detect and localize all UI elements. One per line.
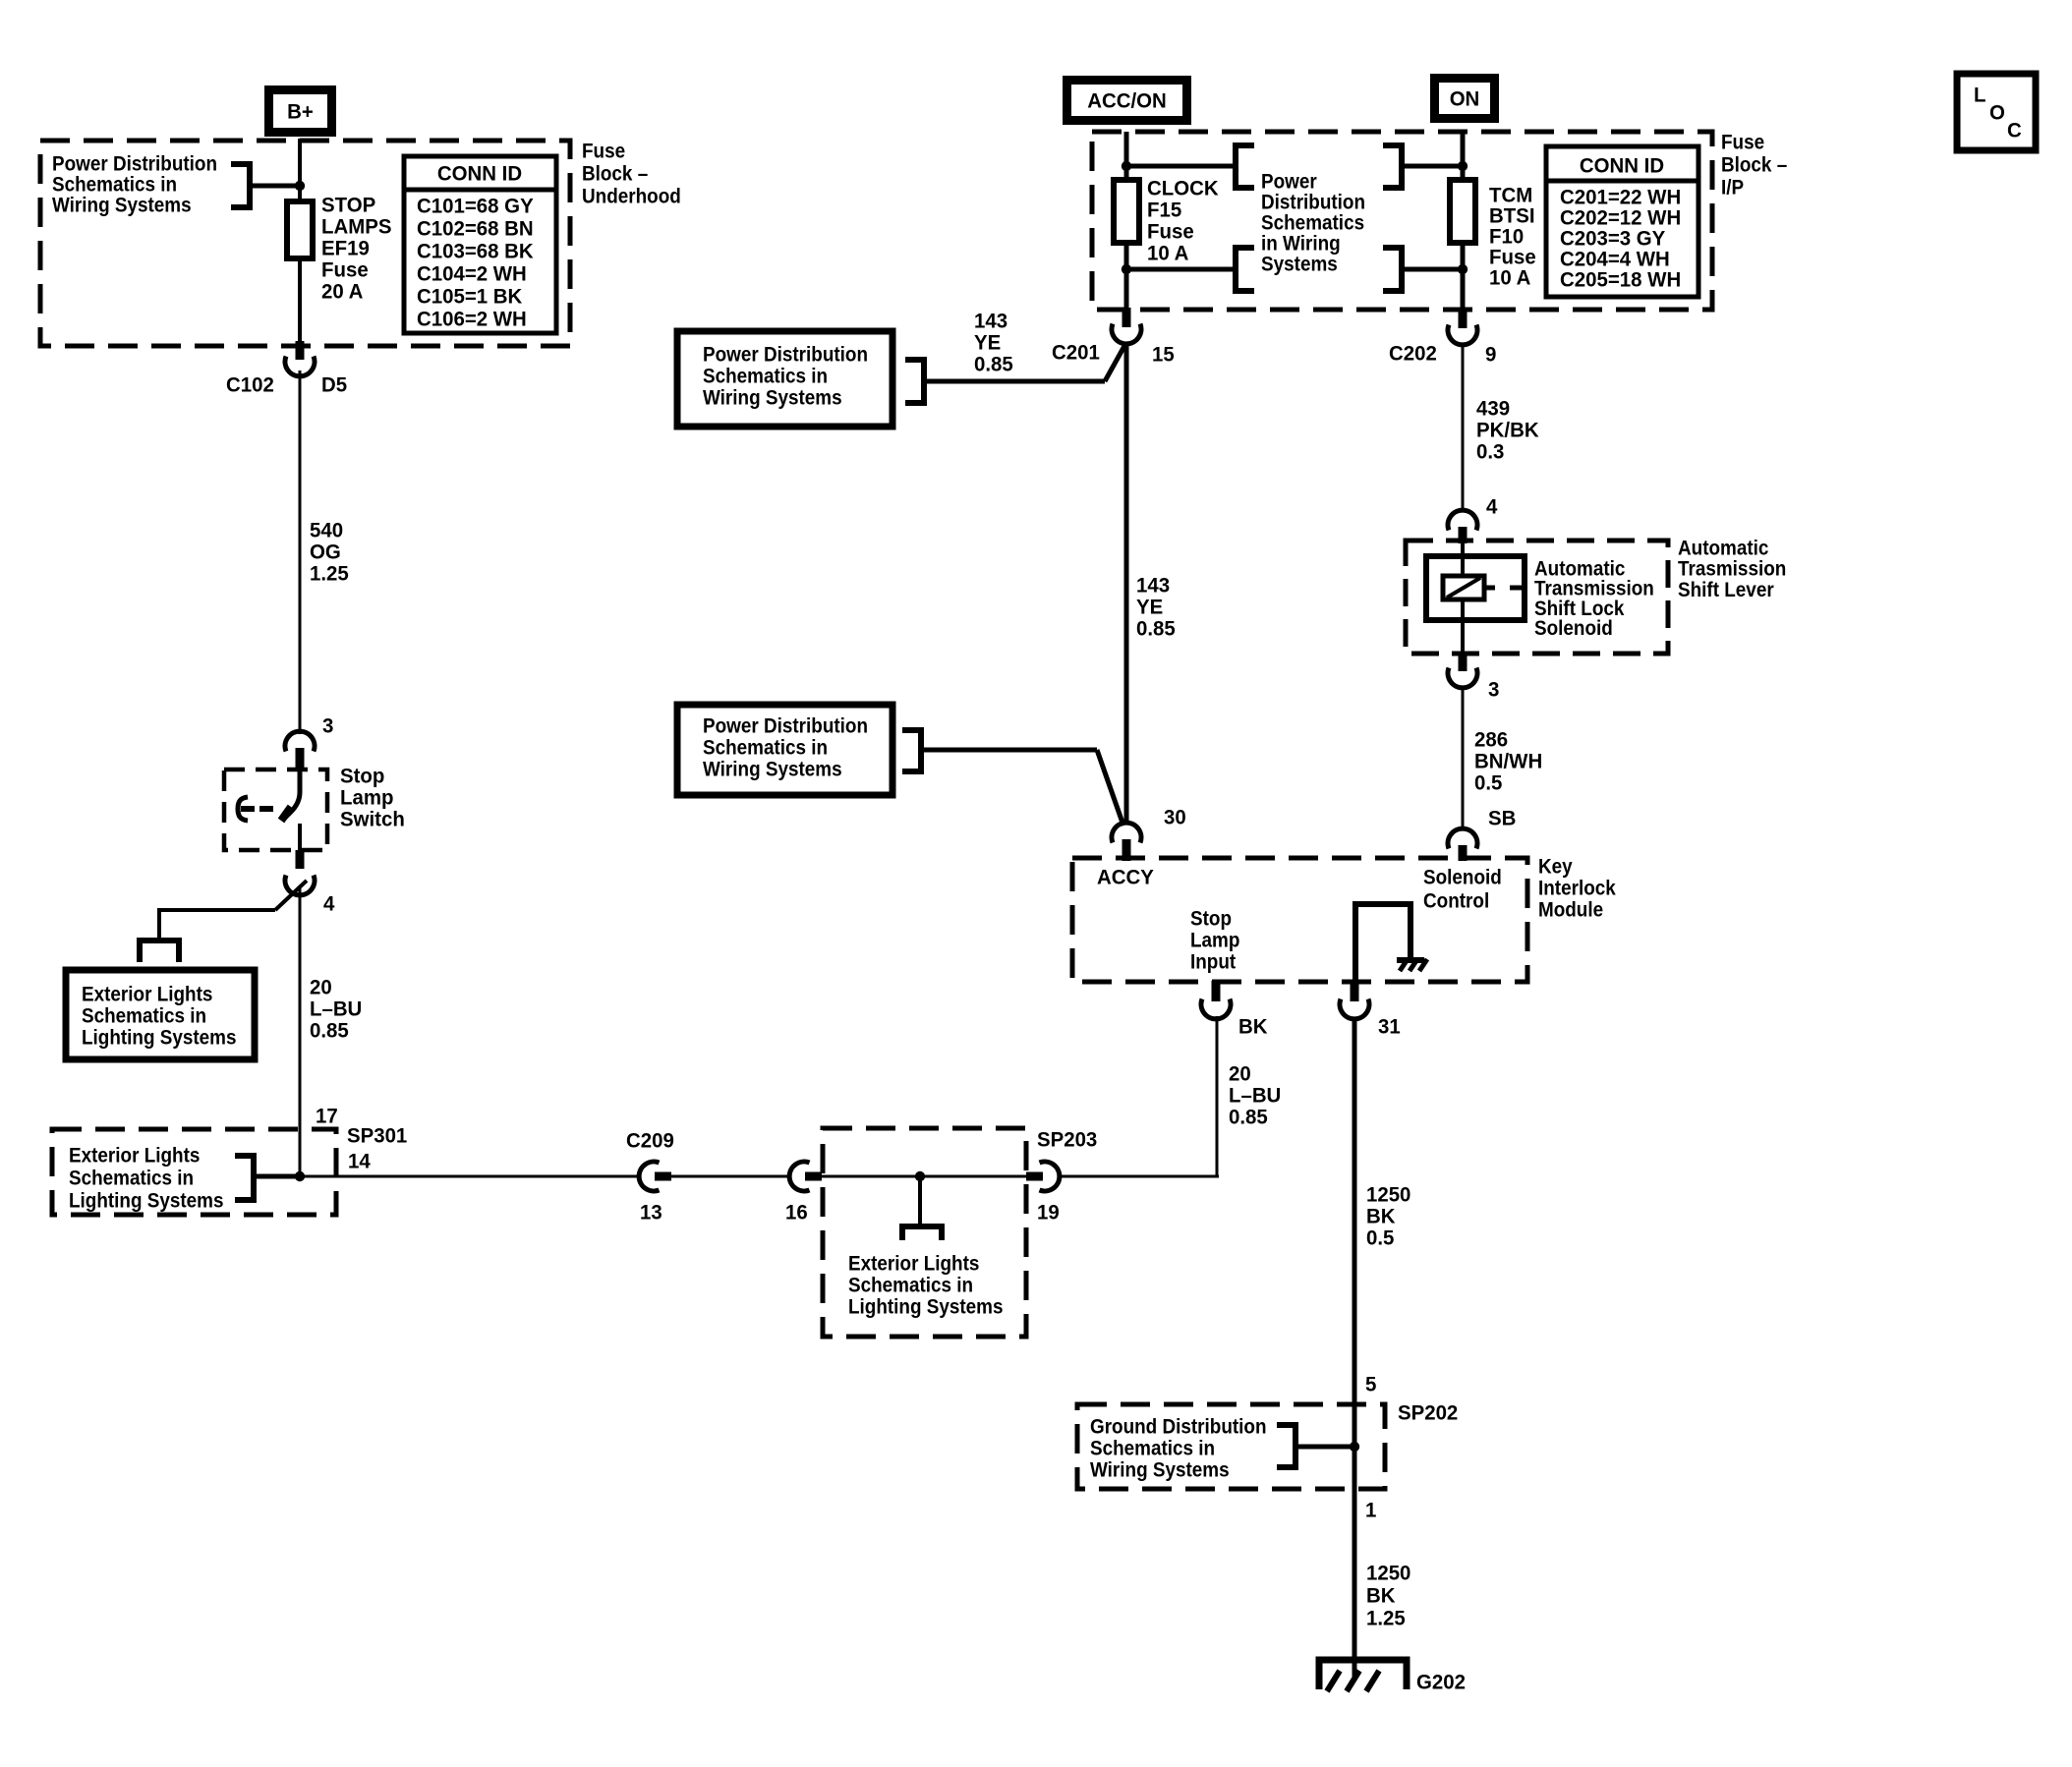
bracket upper right — [1383, 145, 1402, 188]
label SP301 — [347, 1124, 407, 1148]
svg-text:C209: C209 — [626, 1129, 674, 1153]
label Fuse Block - I/P — [1721, 130, 1787, 199]
svg-text:0.85: 0.85 — [310, 1019, 349, 1043]
fuse STOP LAMPS EF19 — [287, 201, 313, 258]
svg-text:Block –: Block – — [582, 161, 648, 185]
key interlock module box — [1072, 858, 1527, 982]
label pin 1 — [1365, 1499, 1376, 1522]
connector C201 stub — [1122, 308, 1131, 327]
label pin 4 — [323, 892, 334, 916]
CONN ID table underhood — [404, 156, 556, 333]
svg-text:Wiring Systems: Wiring Systems — [52, 193, 192, 216]
stop lamp switch blade — [281, 768, 300, 821]
bracket to B+ feed — [231, 164, 250, 207]
svg-text:Fuse: Fuse — [1147, 220, 1194, 244]
node splice SP301 — [295, 1171, 305, 1181]
svg-text:0.5: 0.5 — [1366, 1226, 1394, 1250]
svg-text:C101=68 GY: C101=68 GY — [417, 195, 534, 218]
svg-text:ACCY: ACCY — [1097, 866, 1154, 889]
svg-text:16: 16 — [785, 1201, 808, 1225]
solenoid inner box — [1426, 556, 1525, 620]
svg-text:YE: YE — [974, 331, 1001, 355]
label 1250 BK 1.25 — [1366, 1562, 1410, 1630]
connector C209 socket 13 — [639, 1162, 659, 1191]
wire splice down — [918, 1176, 922, 1226]
reference box power distribution 2 — [677, 705, 892, 795]
label TCM BTSI F10 Fuse 10 A — [1489, 184, 1536, 290]
connector BK stub — [1212, 981, 1221, 1001]
label SP203 — [1037, 1128, 1097, 1152]
label pin 31 — [1378, 1015, 1401, 1039]
label ACCY — [1097, 866, 1154, 889]
svg-text:Input: Input — [1190, 949, 1236, 973]
svg-text:Ground Distribution: Ground Distribution — [1090, 1414, 1267, 1438]
svg-text:O: O — [1989, 101, 2005, 125]
svg-text:C102=68 BN: C102=68 BN — [417, 217, 534, 241]
svg-text:1250: 1250 — [1366, 1183, 1410, 1207]
wire ref1 diagonal — [1105, 346, 1124, 381]
label 143 YE 0.85 (mid) — [1136, 574, 1176, 641]
label CLOCK F15 Fuse 10 A — [1147, 177, 1219, 265]
svg-text:Wiring Systems: Wiring Systems — [1090, 1457, 1230, 1481]
svg-text:Wiring Systems: Wiring Systems — [703, 757, 842, 780]
wire 19 to BK corner — [1060, 1175, 1219, 1178]
wire fuse to C201 — [1124, 243, 1129, 311]
label pin 30 — [1164, 806, 1186, 829]
svg-text:13: 13 — [640, 1201, 662, 1225]
svg-text:19: 19 — [1037, 1201, 1060, 1225]
svg-text:BN/WH: BN/WH — [1474, 750, 1542, 773]
svg-text:0.85: 0.85 — [1229, 1106, 1268, 1129]
svg-text:1: 1 — [1365, 1499, 1376, 1522]
label Stop Lamp Switch — [340, 765, 405, 831]
svg-text:Fuse: Fuse — [582, 139, 625, 162]
note ground distribution schematics — [1090, 1414, 1267, 1481]
note exterior lights schematics (SP203) — [848, 1251, 1004, 1318]
node junction on B+ wire — [295, 181, 305, 191]
label C202 — [1389, 342, 1437, 366]
svg-text:Block –: Block – — [1721, 152, 1787, 176]
wire upper feed left — [1126, 164, 1236, 169]
wire C209 to 16 — [671, 1175, 788, 1178]
connector C209 stub 13 — [655, 1172, 671, 1181]
label C102 — [226, 373, 274, 397]
wire 540 OG — [299, 370, 302, 734]
svg-text:CONN ID: CONN ID — [437, 162, 522, 186]
node splice SP203 — [915, 1171, 925, 1181]
svg-text:G202: G202 — [1416, 1671, 1466, 1694]
svg-text:Wiring Systems: Wiring Systems — [703, 385, 842, 409]
svg-text:Stop: Stop — [340, 765, 384, 788]
wire fuse to C102 — [298, 258, 302, 344]
svg-text:4: 4 — [323, 892, 334, 916]
wire out of solenoid — [1461, 599, 1465, 655]
label C201 — [1052, 341, 1100, 365]
svg-text:Solenoid: Solenoid — [1423, 865, 1502, 888]
connector SB stub — [1459, 845, 1468, 861]
svg-text:LAMPS: LAMPS — [321, 215, 392, 239]
splice SP301 box — [52, 1129, 336, 1215]
svg-text:F15: F15 — [1147, 199, 1181, 222]
svg-text:SP202: SP202 — [1398, 1401, 1458, 1425]
label Solenoid Control — [1423, 865, 1502, 912]
svg-text:I/P: I/P — [1721, 175, 1744, 199]
svg-text:20: 20 — [1229, 1062, 1251, 1086]
svg-text:C102: C102 — [226, 373, 274, 397]
connector C202 stub — [1459, 308, 1468, 328]
svg-text:143: 143 — [1136, 574, 1170, 598]
connector pin 3 socket — [285, 731, 315, 751]
connector pin 31 socket — [1340, 999, 1369, 1019]
label pin 3 — [322, 714, 333, 738]
svg-text:Fuse: Fuse — [321, 258, 369, 282]
svg-text:Schematics in: Schematics in — [848, 1273, 973, 1296]
shift lock solenoid box — [1406, 541, 1668, 654]
label 540 OG 1.25 — [310, 519, 349, 586]
switch lower contact — [298, 824, 302, 851]
svg-text:C: C — [2007, 119, 2022, 142]
connector pin 30 socket — [1112, 823, 1141, 842]
svg-text:Systems: Systems — [1261, 252, 1338, 275]
node ON upper — [1458, 161, 1468, 171]
svg-text:10 A: 10 A — [1489, 266, 1530, 290]
fuse CLOCK F15 — [1114, 180, 1139, 243]
svg-text:0.3: 0.3 — [1476, 440, 1504, 464]
wire SP301 to C209 — [300, 1175, 639, 1178]
label G202 — [1416, 1671, 1466, 1694]
fuse TCM BTSI F10 — [1450, 180, 1475, 243]
svg-text:Schematics in: Schematics in — [703, 364, 828, 387]
wire branch horizontal — [159, 908, 275, 912]
wire branch down — [157, 908, 161, 940]
connector pin 3 stub — [296, 748, 305, 769]
svg-text:Lighting Systems: Lighting Systems — [82, 1025, 237, 1049]
svg-text:C104=2 WH: C104=2 WH — [417, 262, 527, 286]
wire up to BK — [1216, 1016, 1219, 1178]
svg-text:0.85: 0.85 — [1136, 617, 1176, 641]
svg-text:Module: Module — [1538, 897, 1603, 921]
svg-text:CONN ID: CONN ID — [1580, 154, 1664, 178]
label BK — [1238, 1015, 1268, 1039]
connector SB socket — [1448, 828, 1477, 848]
svg-text:CLOCK: CLOCK — [1147, 177, 1219, 200]
stop lamp switch box — [224, 769, 327, 850]
bracket lower right — [1383, 248, 1402, 291]
connector socket 19 — [1040, 1162, 1060, 1191]
connector pin 4 socket — [285, 876, 315, 895]
svg-text:15: 15 — [1152, 343, 1175, 367]
svg-text:C202: C202 — [1389, 342, 1437, 366]
connector pin 3 socket (ATSLS) — [1448, 668, 1477, 688]
wire bracket feed — [250, 184, 300, 189]
wire B+ down — [298, 139, 302, 202]
connector pin 4 socket (ATSLS) — [1448, 510, 1477, 530]
svg-text:OG: OG — [310, 541, 341, 564]
wire 20 L-BU down — [299, 887, 302, 1176]
connector pin 4 stub (ATSLS) — [1459, 527, 1468, 543]
wire bracket SP202 feed — [1295, 1445, 1354, 1450]
label 439 PK/BK 0.3 — [1476, 397, 1539, 464]
svg-text:BK: BK — [1366, 1584, 1396, 1608]
svg-text:D5: D5 — [321, 373, 347, 397]
svg-text:C205=18 WH: C205=18 WH — [1560, 268, 1681, 292]
solenoid coil symbol — [1443, 576, 1525, 599]
connector pin 31 stub — [1351, 982, 1359, 1001]
node ACC lower — [1122, 264, 1131, 274]
wire 439 PK/BK — [1462, 346, 1465, 509]
label Fuse Block - Underhood — [582, 139, 681, 207]
wire ref1 feed — [924, 379, 1105, 384]
label SP202 — [1398, 1401, 1458, 1425]
label pin 15 — [1152, 343, 1175, 367]
svg-text:EF19: EF19 — [321, 237, 370, 260]
connector pin 30 stub — [1122, 839, 1131, 861]
svg-text:Solenoid: Solenoid — [1534, 616, 1613, 640]
fuse block underhood box — [40, 141, 570, 346]
svg-text:Shift Lever: Shift Lever — [1678, 578, 1774, 601]
svg-text:1250: 1250 — [1366, 1562, 1410, 1585]
node ON lower — [1458, 264, 1468, 274]
svg-text:Lamp: Lamp — [1190, 928, 1239, 951]
power symbol B+ — [264, 85, 336, 137]
ground G202 symbol — [1319, 1660, 1407, 1691]
svg-text:SP301: SP301 — [347, 1124, 407, 1148]
svg-text:Lighting Systems: Lighting Systems — [69, 1188, 224, 1212]
ground distribution box — [1077, 1404, 1385, 1489]
connector pin 4 stub — [296, 850, 305, 869]
fork to exterior lights note — [902, 1226, 942, 1240]
svg-text:Exterior Lights: Exterior Lights — [69, 1143, 200, 1167]
connector C102 pin stub — [296, 341, 305, 360]
svg-text:10 A: 10 A — [1147, 242, 1188, 265]
label pin 17 — [316, 1105, 338, 1128]
connector stub 19 — [1026, 1172, 1043, 1181]
connector BK socket — [1201, 999, 1231, 1019]
label 286 BN/WH 0.5 — [1474, 728, 1542, 795]
wire 286 BN/WH — [1462, 688, 1465, 827]
svg-text:14: 14 — [348, 1150, 371, 1173]
connector socket 16 — [789, 1162, 809, 1191]
svg-text:Schematics in: Schematics in — [69, 1166, 194, 1189]
wire upper feed right — [1402, 164, 1463, 169]
svg-text:L–BU: L–BU — [310, 997, 362, 1021]
svg-text:9: 9 — [1485, 343, 1496, 367]
fork to exterior lights box — [140, 940, 179, 962]
wire into solenoid — [1461, 541, 1465, 578]
bracket SP301 — [235, 1156, 254, 1200]
label pin 4 (ATSLS) — [1486, 495, 1497, 519]
wire fuse to C202 — [1461, 243, 1466, 311]
svg-text:ACC/ON: ACC/ON — [1087, 89, 1167, 113]
svg-text:Schematics in: Schematics in — [82, 1003, 206, 1027]
svg-text:ON: ON — [1450, 87, 1480, 111]
wire branch diagonal — [275, 881, 307, 910]
CONN ID table I/P — [1546, 146, 1698, 297]
wire lower feed left — [1126, 267, 1236, 272]
connector C201 socket — [1112, 324, 1141, 344]
label SB — [1488, 807, 1516, 830]
wire ref2 diagonal — [1097, 750, 1123, 826]
svg-text:3: 3 — [322, 714, 333, 738]
label pin 16 — [785, 1201, 808, 1225]
wire bracket SP301 feed — [254, 1174, 300, 1179]
wire 1250 BK 0.5 — [1353, 1017, 1357, 1677]
svg-text:Stop: Stop — [1190, 906, 1232, 930]
wire through SP203 — [822, 1175, 1028, 1178]
svg-text:17: 17 — [316, 1105, 338, 1128]
svg-text:BK: BK — [1366, 1205, 1396, 1228]
svg-text:30: 30 — [1164, 806, 1186, 829]
bracket upper left — [1236, 145, 1254, 188]
svg-text:Fuse: Fuse — [1721, 130, 1764, 153]
svg-text:5: 5 — [1365, 1373, 1376, 1396]
svg-text:YE: YE — [1136, 596, 1163, 619]
svg-text:SP203: SP203 — [1037, 1128, 1097, 1152]
label pin 13 — [640, 1201, 662, 1225]
svg-text:Exterior Lights: Exterior Lights — [82, 982, 212, 1005]
svg-text:C105=1 BK: C105=1 BK — [417, 285, 523, 309]
connector C202 socket — [1448, 325, 1477, 345]
label pin 5 — [1365, 1373, 1376, 1396]
label pin 14 — [348, 1150, 371, 1173]
label pin 19 — [1037, 1201, 1060, 1225]
svg-text:L: L — [1974, 84, 1986, 107]
node ACC upper — [1122, 161, 1131, 171]
connector C102 socket — [285, 357, 315, 376]
svg-text:1.25: 1.25 — [310, 562, 349, 586]
svg-text:143: 143 — [974, 310, 1007, 333]
svg-text:1.25: 1.25 — [1366, 1607, 1406, 1630]
svg-text:20 A: 20 A — [321, 280, 363, 304]
label C209 — [626, 1129, 674, 1153]
svg-text:STOP: STOP — [321, 194, 375, 217]
wire ACC/ON down — [1124, 132, 1129, 181]
label Stop Lamp Input — [1190, 906, 1239, 973]
node splice SP202 — [1350, 1442, 1359, 1452]
svg-text:4: 4 — [1486, 495, 1497, 519]
svg-text:3: 3 — [1488, 678, 1499, 702]
label 1250 BK 0.5 — [1366, 1183, 1410, 1250]
label STOP LAMPS EF19 Fuse 20 A — [321, 194, 392, 304]
svg-text:Power Distribution: Power Distribution — [703, 713, 868, 737]
svg-text:31: 31 — [1378, 1015, 1401, 1039]
svg-text:BK: BK — [1238, 1015, 1268, 1039]
label 20 L-BU 0.85 (left) — [310, 976, 362, 1043]
wire ref2 feed — [921, 748, 1097, 753]
svg-text:Exterior Lights: Exterior Lights — [848, 1251, 979, 1275]
fuse block I/P box — [1092, 132, 1712, 310]
note power distribution schematics (underhood) — [52, 151, 217, 216]
switch actuator symbol — [238, 797, 273, 821]
svg-text:540: 540 — [310, 519, 343, 542]
bracket lower left — [1236, 248, 1254, 291]
module internal solenoid wire — [1355, 904, 1410, 995]
power symbol ACC/ON — [1063, 76, 1191, 125]
svg-text:Lamp: Lamp — [340, 786, 394, 810]
svg-text:SB: SB — [1488, 807, 1516, 830]
exterior lights reference box (solid) — [66, 970, 255, 1059]
svg-text:PK/BK: PK/BK — [1476, 419, 1539, 442]
LOC icon — [1957, 74, 2036, 150]
label Automatic Transmission Shift Lock Solenoid — [1534, 556, 1654, 640]
label 20 L-BU 0.85 (right) — [1229, 1062, 1281, 1129]
wire ON down — [1461, 132, 1466, 181]
note power distribution schematics (I/P) — [1261, 169, 1365, 275]
svg-text:Lighting Systems: Lighting Systems — [848, 1294, 1004, 1318]
svg-text:C106=2 WH: C106=2 WH — [417, 308, 527, 331]
wire 143 YE — [1124, 344, 1129, 823]
svg-text:Schematics in: Schematics in — [1090, 1436, 1215, 1459]
bracket ground distribution — [1277, 1425, 1295, 1467]
svg-text:Switch: Switch — [340, 808, 405, 831]
svg-text:0.5: 0.5 — [1474, 771, 1502, 795]
power symbol ON — [1430, 74, 1499, 123]
connector stub 16 — [805, 1172, 822, 1181]
svg-text:L–BU: L–BU — [1229, 1084, 1281, 1108]
svg-text:439: 439 — [1476, 397, 1510, 421]
svg-text:Schematics in: Schematics in — [703, 735, 828, 759]
svg-text:286: 286 — [1474, 728, 1508, 752]
label 143 YE 0.85 (upper) — [974, 310, 1013, 376]
label Key Interlock Module — [1538, 854, 1616, 921]
svg-text:Control: Control — [1423, 888, 1489, 912]
label pin 9 — [1485, 343, 1496, 367]
bracket ref box 2 — [902, 730, 921, 771]
note exterior lights schematics (SP301) — [69, 1143, 224, 1212]
svg-text:Key: Key — [1538, 854, 1573, 878]
svg-text:C103=68 BK: C103=68 BK — [417, 240, 534, 263]
svg-text:20: 20 — [310, 976, 332, 999]
connector pin 3 stub (ATSLS) — [1459, 653, 1468, 671]
label Automatic Trasmission Shift Lever — [1678, 536, 1786, 601]
svg-text:Interlock: Interlock — [1538, 876, 1616, 899]
splice SP203 box — [823, 1128, 1026, 1337]
svg-text:C201: C201 — [1052, 341, 1100, 365]
svg-text:Power Distribution: Power Distribution — [703, 342, 868, 366]
module internal ground — [1397, 959, 1427, 971]
label pin 3 (ATSLS) — [1488, 678, 1499, 702]
reference box power distribution 1 — [677, 331, 892, 427]
bracket ref box 1 — [905, 360, 924, 403]
svg-text:0.85: 0.85 — [974, 353, 1013, 376]
wire lower feed right — [1402, 267, 1463, 272]
svg-text:B+: B+ — [287, 100, 314, 124]
svg-text:Underhood: Underhood — [582, 184, 681, 207]
label D5 — [321, 373, 347, 397]
